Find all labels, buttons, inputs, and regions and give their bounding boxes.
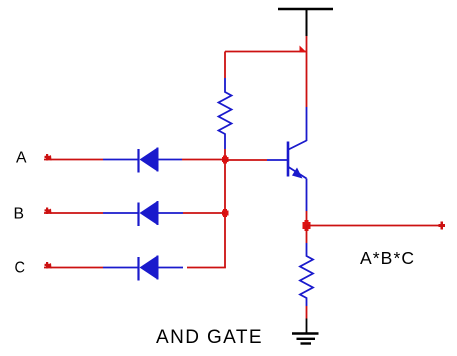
node junction output [303,220,311,231]
diode D1 (input A) [139,148,158,173]
transistor Q1 emitter arrow [292,168,303,179]
wire base blue lead [267,159,288,161]
diode D2 (input B) [139,201,158,226]
wire A blue (anode lead) [103,159,138,161]
output port marker [439,222,446,230]
junction arrow at collector node [300,46,307,53]
svg-text:C: C [15,260,26,277]
wire VCC stem (black) [306,9,308,36]
wire common node vertical red (A row to C row) [224,160,226,268]
svg-text:AND GATE: AND GATE [156,327,263,348]
svg-text:B: B [14,206,25,223]
transistor Q1 collector diagonal [289,141,307,150]
wire ground stem black [306,319,308,334]
wire R1 bottom red vertical [224,149,226,160]
wire output red horizontal [307,225,443,227]
diode D3 (input C) [139,256,158,281]
transistor Q1 base bar [287,142,290,177]
resistor R2 (emitter load) [300,243,313,306]
wire B blue (after diode) [158,212,184,214]
wire emitter red to output node [306,211,308,226]
wire collector blue lead [306,107,308,141]
wire R1 top red vertical [224,52,226,79]
wire emitter blue lead [306,179,308,212]
input port marker B [45,208,52,215]
svg-text:A*B*C: A*B*C [360,248,415,268]
VCC power rail bar [278,8,333,10]
wire C blue (after diode) [158,267,184,269]
wire top horizontal red (to R1) [225,51,307,53]
wire C red (corner to common node) [187,267,226,269]
node junction at A row [222,156,229,164]
resistor R1 (pull-up) [219,78,232,149]
wire collector red vertical (VCC to transistor) [306,36,308,107]
input port marker C [45,262,52,269]
node junction at B row [222,209,229,217]
transistor Q1 emitter diagonal [289,167,307,179]
svg-text:A: A [16,150,27,167]
input port marker A [45,154,52,161]
wire R2 top red [306,226,308,244]
wire B blue (anode lead) [103,212,138,214]
wire R2 bottom red [306,306,308,319]
wire base red (node to transistor) [225,159,267,161]
wire A red (to common node) [182,159,225,161]
wire A blue (after diode) [158,159,183,161]
wire B red (to common node) [183,212,225,214]
wire C blue (anode lead) [103,267,138,269]
ground symbol [292,334,319,344]
wire A red (input) [44,159,103,161]
wire C red (input) [44,267,103,269]
wire B red (input) [44,212,103,214]
